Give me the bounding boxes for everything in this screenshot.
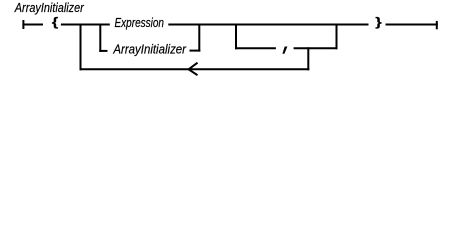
wire main line seg B ( { to Expression ): [61, 24, 110, 26]
wire main line seg A (start to { ): [22, 24, 43, 26]
wire loop-entry vertical V1: [80, 24, 82, 71]
wire branch line left stub: [99, 50, 107, 52]
svg-text:{: {: [52, 15, 59, 29]
wire branch-down vertical V2: [99, 24, 101, 52]
wire comma-branch drop vertical: [235, 24, 237, 50]
wire branch-join vertical: [198, 24, 200, 52]
wire comma line right segment: [294, 47, 338, 49]
svg-text:ArrayInitializer: ArrayInitializer: [113, 41, 187, 56]
svg-text:}: }: [375, 15, 382, 29]
wire main line seg D ( } to end ): [386, 24, 438, 26]
wire comma line left segment: [235, 47, 276, 49]
wire branch line right stub: [190, 50, 201, 52]
wire loop-back bottom line: [80, 68, 310, 70]
svg-text:ArrayInitializer: ArrayInitializer: [14, 0, 84, 15]
start terminal tick: [22, 20, 24, 29]
wire comma-branch rise vertical: [336, 24, 338, 50]
wire main line seg C (Expression to } ): [168, 24, 368, 26]
svg-text:Expression: Expression: [115, 15, 165, 30]
end terminal tick: [436, 21, 438, 29]
terminal ,: [282, 47, 287, 54]
wire loop-exit down vertical: [307, 47, 309, 70]
loop-back left arrowhead: [189, 63, 198, 75]
